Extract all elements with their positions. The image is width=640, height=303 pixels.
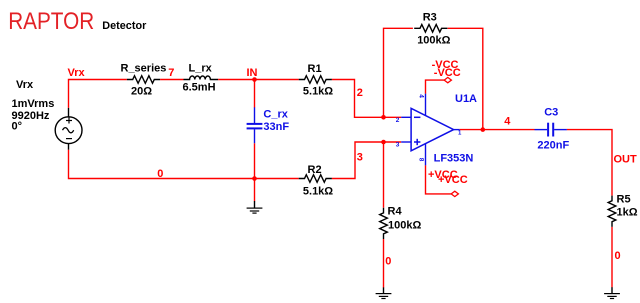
svg-text:R2: R2 — [308, 164, 322, 176]
wire plus junction down to R4 — [383, 142, 385, 208]
resistor R3 — [414, 24, 447, 32]
wire pin8 to +VCC connector — [426, 165, 452, 194]
wire junction to ground 1 — [254, 179, 256, 202]
svg-text:0: 0 — [157, 168, 163, 180]
svg-text:20Ω: 20Ω — [131, 85, 152, 97]
svg-text:L_rx: L_rx — [189, 63, 213, 75]
source labels Vrx 1mVrms 9920Hz 0deg — [12, 79, 55, 133]
svg-text:IN: IN — [247, 67, 258, 79]
svg-text:C3: C3 — [544, 107, 558, 119]
svg-text:6.5mH: 6.5mH — [183, 82, 216, 94]
wire pin4 to -VCC connector — [426, 80, 445, 94]
junction minus input — [381, 115, 386, 120]
svg-text:0°: 0° — [12, 120, 23, 132]
svg-text:2: 2 — [357, 87, 363, 99]
svg-text:3: 3 — [396, 142, 400, 149]
svg-text:1: 1 — [458, 131, 462, 137]
wire R5 to ground — [611, 227, 613, 288]
inductor L_rx — [184, 76, 219, 80]
wire R1 to op-amp minus input — [332, 80, 401, 118]
wire feedback right vertical — [448, 28, 483, 129]
op-amp U1A — [401, 94, 460, 166]
capacitor C3 — [535, 123, 567, 137]
svg-text:R4: R4 — [388, 206, 403, 218]
resistor R4 — [380, 208, 388, 239]
svg-text:-VCC: -VCC — [434, 67, 461, 79]
resistor R5 — [608, 196, 616, 227]
svg-text:R1: R1 — [308, 63, 322, 75]
svg-text:33nF: 33nF — [263, 121, 289, 133]
junction IN node — [252, 77, 257, 82]
svg-text:R_series: R_series — [121, 63, 167, 75]
svg-text:3: 3 — [357, 151, 363, 163]
resistor R2 — [299, 175, 332, 183]
svg-text:5.1kΩ: 5.1kΩ — [303, 185, 333, 197]
wire output to C3 — [460, 129, 535, 131]
svg-text:LF353N: LF353N — [434, 152, 474, 164]
svg-text:C_rx: C_rx — [263, 108, 288, 120]
svg-text:Vrx: Vrx — [68, 67, 86, 79]
AC source Vrx — [55, 108, 82, 150]
-VCC connector diamond — [444, 77, 451, 82]
svg-text:U1A: U1A — [455, 93, 477, 105]
wire R2 to op-amp plus input — [332, 142, 401, 179]
wire L_rx to R1 through IN node — [218, 79, 299, 81]
resistor R_series — [127, 76, 160, 84]
wire bottom rail — [69, 150, 299, 179]
wire feedback left vertical and top — [384, 28, 413, 117]
svg-text:8: 8 — [418, 158, 425, 162]
svg-text:4: 4 — [418, 94, 425, 98]
svg-text:0: 0 — [615, 250, 621, 262]
resistor R1 — [299, 76, 332, 84]
svg-text:Detector: Detector — [102, 20, 147, 32]
wire between R_series and L_rx — [160, 79, 183, 81]
ground GND1 — [247, 201, 263, 213]
svg-text:5.1kΩ: 5.1kΩ — [303, 86, 333, 98]
svg-text:Vrx: Vrx — [16, 79, 34, 91]
svg-text:1kΩ: 1kΩ — [617, 207, 638, 219]
wire C3 to R5 — [567, 130, 612, 196]
capacitor C_rx — [247, 107, 263, 143]
wire R4 to ground — [383, 239, 385, 288]
svg-text:100kΩ: 100kΩ — [417, 34, 450, 46]
junction bottom rail / ground — [252, 176, 257, 181]
svg-text:R3: R3 — [423, 11, 437, 23]
svg-text:1mVrms: 1mVrms — [12, 98, 55, 110]
svg-text:+VCC: +VCC — [438, 174, 468, 186]
svg-text:100kΩ: 100kΩ — [388, 219, 421, 231]
wire top rail left (Vrx to R_series) — [69, 80, 127, 108]
svg-text:7: 7 — [168, 67, 174, 79]
ground GND2 — [376, 287, 392, 298]
junction output — [481, 127, 486, 132]
svg-text:RAPTOR: RAPTOR — [8, 8, 94, 35]
svg-text:R5: R5 — [617, 193, 631, 205]
+VCC connector diamond — [451, 191, 458, 196]
svg-text:220nF: 220nF — [537, 139, 569, 151]
wire IN down to C_rx — [254, 80, 256, 108]
svg-text:OUT: OUT — [614, 153, 638, 165]
junction plus input — [381, 140, 386, 145]
svg-text:0: 0 — [385, 255, 391, 267]
svg-text:2: 2 — [396, 117, 400, 124]
svg-text:4: 4 — [504, 115, 511, 127]
ground GND3 — [604, 287, 620, 298]
wire C_rx to bottom rail — [254, 143, 256, 178]
